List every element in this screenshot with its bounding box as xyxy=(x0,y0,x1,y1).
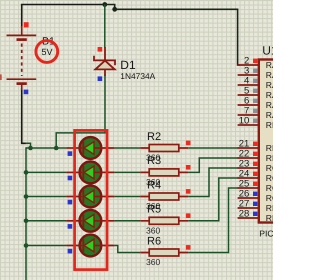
U1 pin 21 line xyxy=(238,147,259,149)
diode D1 pin through xyxy=(104,47,106,76)
LED1 logic-state square xyxy=(68,151,73,156)
svg-text:RE2: RE2 xyxy=(266,120,273,130)
U1 pin 4 logic-state square xyxy=(253,79,257,83)
diode D1 zener cathode bar xyxy=(94,56,115,65)
wire R2 to U1 pin 21 xyxy=(188,147,238,149)
wire LED3 anode to R4 xyxy=(114,196,140,198)
U1 pin 24 logic-state square xyxy=(253,172,257,176)
LED3 logic-state square xyxy=(68,200,73,205)
wire bus branch to LED4 xyxy=(26,220,66,222)
svg-text:RC7: RC7 xyxy=(266,193,273,203)
wire top rail step to U1 pin 2 xyxy=(105,5,240,66)
resistor R4 logic-state square xyxy=(186,189,191,194)
U1 pin 22 line xyxy=(238,157,259,159)
svg-text:R2: R2 xyxy=(147,131,161,143)
svg-text:RD2: RD2 xyxy=(266,143,273,153)
U1 pin 27 line xyxy=(238,207,259,209)
wire bus branch to LED2 xyxy=(26,171,66,173)
diode D1 logic-state square bottom xyxy=(98,76,103,81)
wire bus branch to LED1 xyxy=(26,147,66,149)
U1 pin 3 line xyxy=(238,74,259,76)
U1 pin 7 line xyxy=(238,114,259,116)
resistor R5 logic-state square xyxy=(186,213,191,218)
LED D-LED5 xyxy=(66,235,114,257)
svg-text:RA4: RA4 xyxy=(266,100,273,110)
wire battery negative down to bus corner xyxy=(22,88,27,143)
U1 pin 23 logic-state square xyxy=(253,162,257,166)
U1 pin 5 line xyxy=(238,94,259,96)
wire top rail (battery + to D1 tap) xyxy=(21,4,105,6)
resistor R2 logic-state square xyxy=(186,141,191,146)
diode D1 logic-state square top xyxy=(98,47,103,52)
svg-text:RA5: RA5 xyxy=(266,110,273,120)
U1 pin 10 logic-state square xyxy=(253,119,257,123)
wire bus branch to LED5 xyxy=(26,245,66,247)
resistor R4 xyxy=(140,193,188,200)
svg-text:RA3: RA3 xyxy=(266,90,273,100)
annotation clipped red mark at left edge xyxy=(0,74,2,80)
svg-text:1N4734A: 1N4734A xyxy=(120,71,155,81)
wire LED2 anode to R3 xyxy=(114,171,140,173)
svg-text:RD4: RD4 xyxy=(266,203,273,213)
U1 pin 7 logic-state square xyxy=(253,109,257,113)
svg-text:R4: R4 xyxy=(147,179,161,191)
svg-text:RC5: RC5 xyxy=(266,173,273,183)
U1 pin 10 line xyxy=(238,124,259,126)
svg-text:R3: R3 xyxy=(147,155,161,167)
U1 pin 24 line xyxy=(238,177,259,179)
svg-text:360: 360 xyxy=(146,225,161,235)
svg-text:RA1: RA1 xyxy=(266,70,273,80)
resistor R3 xyxy=(140,169,188,176)
svg-text:RC6: RC6 xyxy=(266,183,273,193)
node junction D1 at LED row 1 xyxy=(54,146,59,151)
U1 pin 6 line xyxy=(238,104,259,106)
U1 pin 26 line xyxy=(238,197,259,199)
svg-text:D1: D1 xyxy=(120,58,136,72)
wire D1 anode drop from top rail xyxy=(104,5,106,49)
wire corner into LED bus xyxy=(26,143,31,148)
LED D-LED1 xyxy=(66,137,114,159)
node junction battery at LED row 1 xyxy=(28,146,33,151)
battery B1 cell 1 short plate xyxy=(17,38,27,41)
svg-text:U1: U1 xyxy=(262,43,273,57)
op-amp U1 body (microcontroller) xyxy=(259,60,299,223)
resistor R6 xyxy=(140,249,188,256)
wire R3 to U1 pin 22 xyxy=(188,158,238,172)
svg-text:RA2: RA2 xyxy=(266,80,273,90)
battery B1 dashed link xyxy=(21,44,23,77)
resistor R2 xyxy=(140,145,188,152)
U1 pin 25 line xyxy=(238,187,259,189)
wire R6 to U1 pin 25 xyxy=(188,188,238,253)
U1 pin 27 logic-state square xyxy=(253,202,257,206)
node junction at D1 tap xyxy=(102,2,107,7)
U1 pin 6 logic-state square xyxy=(253,99,257,103)
LED5 logic-state square xyxy=(68,249,73,254)
U1 pin 23 line xyxy=(238,167,259,169)
U1 pin 25 logic-state square xyxy=(253,182,257,186)
wire LED5 anode jog down to R6 xyxy=(114,246,140,253)
annotation red rectangle around LEDs xyxy=(75,130,107,269)
svg-text:R6: R6 xyxy=(147,235,161,247)
resistor R6 logic-state square xyxy=(186,245,191,250)
node junction bus row 5 xyxy=(24,243,29,248)
LED2 logic-state square xyxy=(68,176,73,181)
node junction bus row 4 xyxy=(24,219,29,224)
svg-text:5V: 5V xyxy=(42,47,53,57)
svg-text:RD3: RD3 xyxy=(266,153,273,163)
LED D-LED3 xyxy=(66,186,114,208)
resistor R3 logic-state square xyxy=(186,165,191,170)
wire R5 to U1 pin 24 xyxy=(188,178,238,221)
battery B1 logic-state square positive xyxy=(24,22,29,27)
diode D1 triangle xyxy=(95,61,114,70)
LED4 logic-state square xyxy=(68,224,73,229)
svg-text:10: 10 xyxy=(239,115,250,126)
U1 pin 4 line xyxy=(238,84,259,86)
U1 pin 26 logic-state square xyxy=(253,192,257,196)
LED D-LED4 xyxy=(66,210,114,232)
U1 pin 3 logic-state square xyxy=(253,69,257,73)
wire D1 cathode down and left to LED bus xyxy=(56,74,105,148)
wire R4 to U1 pin 23 xyxy=(188,168,238,197)
annotation red circle around 5V xyxy=(36,41,58,63)
LED D-LED2 xyxy=(66,162,114,184)
U1 pin 28 logic-state square xyxy=(253,212,257,216)
wire LED4 anode to R5 xyxy=(114,220,140,222)
U1 pin 2 logic-state square xyxy=(253,59,257,63)
battery B1 cell 1 long plate xyxy=(7,34,37,36)
U1 pin 5 logic-state square xyxy=(253,89,257,93)
resistor R5 xyxy=(140,217,188,224)
svg-text:PIC16F877A: PIC16F877A xyxy=(259,228,273,238)
wire bus branch to LED3 xyxy=(26,196,66,198)
node junction at rail step xyxy=(112,7,117,12)
battery B1 pin stub bottom xyxy=(21,85,23,91)
svg-text:R5: R5 xyxy=(147,204,161,216)
svg-text:RC4: RC4 xyxy=(266,163,273,173)
U1 pin 2 line xyxy=(238,64,259,66)
wire battery positive to top rail xyxy=(21,5,23,28)
svg-text:RA0: RA0 xyxy=(266,60,273,70)
svg-text:360: 360 xyxy=(146,257,161,267)
battery B1 pin stub top xyxy=(21,26,23,35)
node junction bus row 3 xyxy=(24,194,29,199)
U1 pin 22 logic-state square xyxy=(253,152,257,156)
wire LED cathode bus vertical xyxy=(25,147,27,280)
battery B1 cell 2 long plate xyxy=(7,78,37,80)
battery B1 logic-state square negative xyxy=(24,90,29,95)
U1 pin 21 logic-state square xyxy=(253,142,257,146)
svg-text:28: 28 xyxy=(239,208,250,219)
svg-text:RD5: RD5 xyxy=(266,213,273,223)
wire LED1 anode to R2 xyxy=(114,147,140,149)
battery B1 cell 2 short plate xyxy=(17,82,27,85)
U1 pin 28 line xyxy=(238,217,259,219)
node junction bus row 2 xyxy=(24,170,29,175)
